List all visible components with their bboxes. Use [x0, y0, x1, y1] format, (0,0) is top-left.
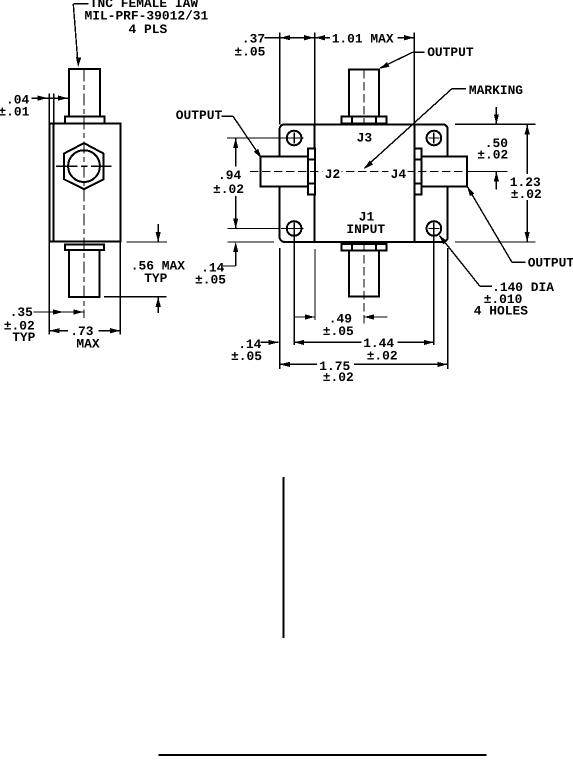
left view body outline — [49, 123, 120, 241]
horizontal centerline J2-J4 — [250, 171, 508, 173]
svg-text:±.05: ±.05 — [195, 273, 226, 288]
dimension 1.44 ±.02 — [294, 336, 434, 363]
label J4 — [389, 167, 408, 182]
right view inner square left edge — [314, 124, 316, 242]
dimension .14 ±.05 lower-left — [231, 337, 278, 364]
svg-text:OUTPUT: OUTPUT — [176, 108, 223, 123]
left view vertical centerline — [83, 70, 85, 319]
svg-text:J2: J2 — [325, 167, 340, 182]
dimension .56 MAX TYP — [104, 224, 185, 313]
svg-text:±.02: ±.02 — [213, 182, 244, 197]
left view hex horizontal centerline — [56, 165, 112, 167]
svg-text:MARKING: MARKING — [469, 83, 523, 98]
label OUTPUT left — [176, 108, 262, 158]
svg-text:J3: J3 — [357, 131, 373, 146]
svg-text:±.05: ±.05 — [323, 324, 354, 339]
connector J2 barrel — [261, 157, 308, 187]
dimension .35 ±.02 TYP — [4, 305, 84, 345]
top extension lines — [280, 33, 415, 125]
label J1 INPUT — [346, 209, 385, 237]
dimension .50 ±.02 — [477, 107, 508, 190]
vertical centerline J3 — [363, 70, 365, 124]
left side extension lines — [227, 138, 288, 242]
svg-text:4 PLS: 4 PLS — [129, 22, 168, 37]
leader TNC label to top connector — [73, 4, 88, 68]
svg-text:.94: .94 — [218, 168, 241, 183]
svg-text:±.02: ±.02 — [323, 370, 354, 385]
vertical separator line — [283, 477, 285, 638]
left view mounting lip extension lines (.04 feature) — [49, 94, 53, 124]
right side extension lines — [455, 124, 535, 242]
svg-text:OUTPUT: OUTPUT — [427, 45, 474, 60]
svg-text:±.02: ±.02 — [511, 187, 542, 202]
dimension 1.23 ±.02 — [510, 124, 542, 242]
right view body outline — [280, 124, 448, 242]
mounting hole top-left — [281, 131, 304, 146]
connector J4 flange — [414, 149, 421, 195]
dimension 1.01 MAX — [315, 32, 414, 47]
mounting hole top-right — [427, 131, 442, 146]
left view connector circle — [68, 150, 100, 182]
svg-text:±.01: ±.01 — [0, 104, 30, 119]
left view hex nut — [64, 143, 104, 189]
label .140 DIA ±.010 4 HOLES with leader — [439, 235, 554, 319]
left view top connector flange — [65, 116, 104, 123]
svg-text:1.01 MAX: 1.01 MAX — [332, 32, 394, 47]
vertical centerline J1 — [363, 243, 365, 324]
left view top connector barrel — [69, 69, 100, 117]
label OUTPUT top — [379, 45, 474, 69]
svg-text:OUTPUT: OUTPUT — [528, 255, 573, 270]
left view extension lines below — [49, 242, 120, 335]
label OUTPUT bottom-right — [467, 186, 573, 270]
mounting hole bottom-left — [281, 221, 304, 236]
svg-text:MAX: MAX — [76, 336, 99, 351]
connector J3 flange — [342, 117, 387, 124]
svg-text:±.05: ±.05 — [231, 349, 262, 364]
dimension .04 ±.01 — [0, 92, 70, 119]
dimension .37 ±.05 — [234, 32, 314, 60]
connector J4 barrel — [421, 157, 467, 187]
bottom extension lines — [280, 223, 448, 370]
svg-text:INPUT: INPUT — [346, 222, 385, 237]
dimension .49 ±.05 — [294, 312, 387, 339]
dimension .14 ±.05 upper-left — [195, 242, 238, 288]
right view inner square right edge — [413, 124, 415, 242]
label TNC FEMALE IAW MIL-PRF-39012/31 4 PLS — [85, 0, 209, 37]
svg-text:J4: J4 — [391, 167, 407, 182]
svg-text:TYP: TYP — [144, 271, 167, 286]
label MARKING with leader — [364, 83, 523, 169]
svg-text:±.02: ±.02 — [477, 148, 508, 163]
left view bottom connector barrel — [69, 250, 99, 297]
dimension .94 ±.02 — [213, 138, 244, 229]
svg-text:TYP: TYP — [12, 330, 35, 345]
connector J2 flange — [308, 149, 315, 195]
svg-text:±.02: ±.02 — [367, 348, 398, 363]
svg-text:±.05: ±.05 — [234, 44, 265, 59]
mounting hole bottom-right — [427, 221, 442, 236]
left view bottom connector flange — [65, 245, 104, 251]
dimension 1.75 ±.02 — [280, 359, 448, 385]
svg-text:4 HOLES: 4 HOLES — [474, 304, 528, 319]
label J3 — [357, 131, 373, 146]
label J2 — [323, 167, 342, 182]
connector J3 barrel — [349, 69, 379, 116]
connector J1 barrel — [349, 250, 379, 296]
connector J1 flange — [342, 244, 387, 250]
bottom horizontal rule — [158, 754, 486, 756]
dimension .73 MAX — [49, 324, 120, 351]
